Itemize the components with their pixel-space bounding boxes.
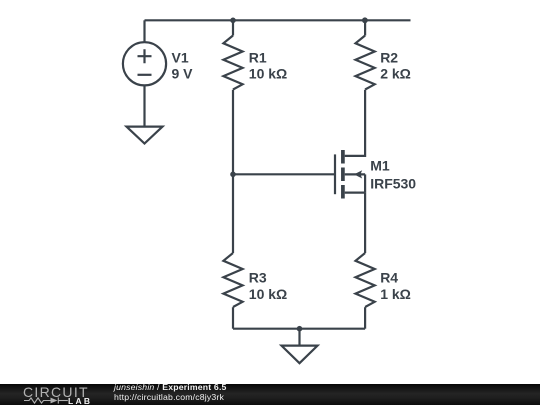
wire V1 top lead (143, 20, 145, 42)
wire R1 top lead (232, 20, 234, 35)
svg-text:R1: R1 (249, 49, 267, 65)
wire ground stem (298, 329, 300, 346)
transistor M1 (335, 150, 365, 199)
wire bottom rail (233, 328, 365, 330)
footer credit text (114, 382, 227, 402)
svg-text:R4: R4 (380, 269, 398, 285)
wire source to R4 (364, 193, 366, 253)
resistor R3 (223, 253, 242, 307)
wire V1 bottom lead (143, 85, 145, 126)
svg-text:9 V: 9 V (172, 66, 194, 82)
svg-text:2 kΩ: 2 kΩ (380, 66, 411, 82)
resistor R4 (356, 253, 375, 307)
wire R4 bottom lead (364, 307, 366, 329)
ground bottom (282, 346, 318, 364)
svg-text:IRF530: IRF530 (370, 175, 416, 191)
wire R3 bottom lead (232, 307, 234, 329)
footer bar (0, 384, 540, 405)
svg-text:M1: M1 (370, 158, 390, 174)
voltage source V1 (123, 42, 166, 85)
node junction top R1 (230, 18, 236, 24)
resistor R2 (356, 36, 375, 90)
wire top rail (145, 19, 411, 21)
svg-text:10 kΩ: 10 kΩ (249, 66, 287, 82)
wire R1 bottom to gate node (232, 90, 234, 175)
wire gate horizontal (233, 173, 335, 175)
wire R2 top lead (364, 20, 366, 35)
node junction top R2 (362, 17, 368, 23)
svg-text:R2: R2 (380, 49, 398, 65)
svg-text:LAB: LAB (68, 396, 92, 405)
wire gate node to R3 (232, 174, 234, 253)
node junction gate (230, 172, 236, 178)
svg-text:R3: R3 (249, 269, 267, 285)
svg-text:V1: V1 (172, 50, 189, 66)
svg-text:10 kΩ: 10 kΩ (249, 286, 287, 302)
ground under V1 (127, 127, 163, 144)
CircuitLab logo (0, 384, 110, 405)
wire R2 bottom to drain (345, 90, 365, 156)
svg-text:1 kΩ: 1 kΩ (380, 286, 411, 302)
resistor R1 (223, 36, 242, 90)
node junction ground (297, 326, 303, 332)
